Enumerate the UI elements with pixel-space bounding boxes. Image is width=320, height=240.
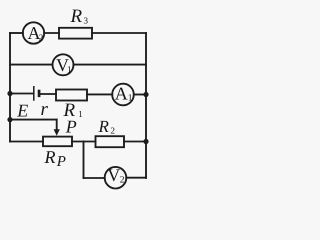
wire: A1 to right bus [134, 94, 146, 96]
battery E,r short thick plate [38, 90, 41, 97]
ammeter A1 circle [112, 84, 134, 106]
wire: V2 row left segment [84, 177, 105, 179]
junction dot right bus A1 row [143, 92, 148, 97]
svg-text:2: 2 [111, 126, 116, 136]
voltmeter V1 circle [53, 54, 74, 75]
wire: wiper row horizontal from left bus [10, 119, 57, 121]
svg-text:2: 2 [39, 32, 44, 42]
wire: Rp to R2 through tap [72, 141, 96, 143]
svg-text:V: V [107, 165, 120, 185]
svg-text:1: 1 [78, 109, 83, 119]
svg-text:1: 1 [128, 94, 133, 104]
wire: V2 row right segment [126, 177, 146, 179]
svg-text:1: 1 [67, 66, 72, 76]
wire: top row right segment to right bus [92, 32, 146, 34]
battery E,r long plate [33, 86, 35, 101]
rheostat Rp box [43, 137, 72, 147]
junction dot left bus wiper row [7, 117, 12, 122]
svg-text:R: R [70, 6, 83, 27]
svg-text:R: R [44, 147, 56, 167]
svg-text:R: R [98, 117, 110, 136]
wire: bottom row left bus to Rp [10, 141, 43, 143]
svg-text:2: 2 [120, 176, 125, 186]
junction dot right bus R2 row [143, 139, 148, 144]
resistor R2 box [96, 136, 125, 147]
wire: V1 row right segment [73, 64, 146, 66]
wire: battery to R1 [40, 93, 56, 95]
voltmeter V2 circle [105, 167, 127, 189]
svg-text:3: 3 [84, 16, 89, 26]
wire: right bus vertical [145, 33, 147, 178]
ammeter A2 circle [23, 22, 44, 43]
svg-text:P: P [56, 154, 66, 170]
svg-text:E: E [16, 101, 28, 121]
wire: R2 to right bus [124, 141, 146, 143]
resistor R3 box [59, 28, 92, 39]
wire: top row between A2 and R3 [44, 32, 59, 34]
svg-text:P: P [65, 116, 77, 136]
wire: R1 to A1 [87, 93, 112, 95]
wire: left bus vertical [9, 33, 11, 142]
junction dot left bus battery row [7, 91, 12, 96]
wire: top row left segment [10, 32, 23, 34]
resistor R1 box [56, 90, 87, 101]
wire: battery row from left bus to battery [10, 93, 34, 95]
wire: V1 row left segment [10, 64, 53, 66]
svg-text:A: A [115, 84, 128, 104]
wire: V2 branch vertical from tap [83, 142, 85, 179]
svg-text:r: r [41, 99, 49, 120]
wiper arrowhead P [54, 129, 60, 136]
wire: wiper vertical drop [56, 120, 58, 130]
